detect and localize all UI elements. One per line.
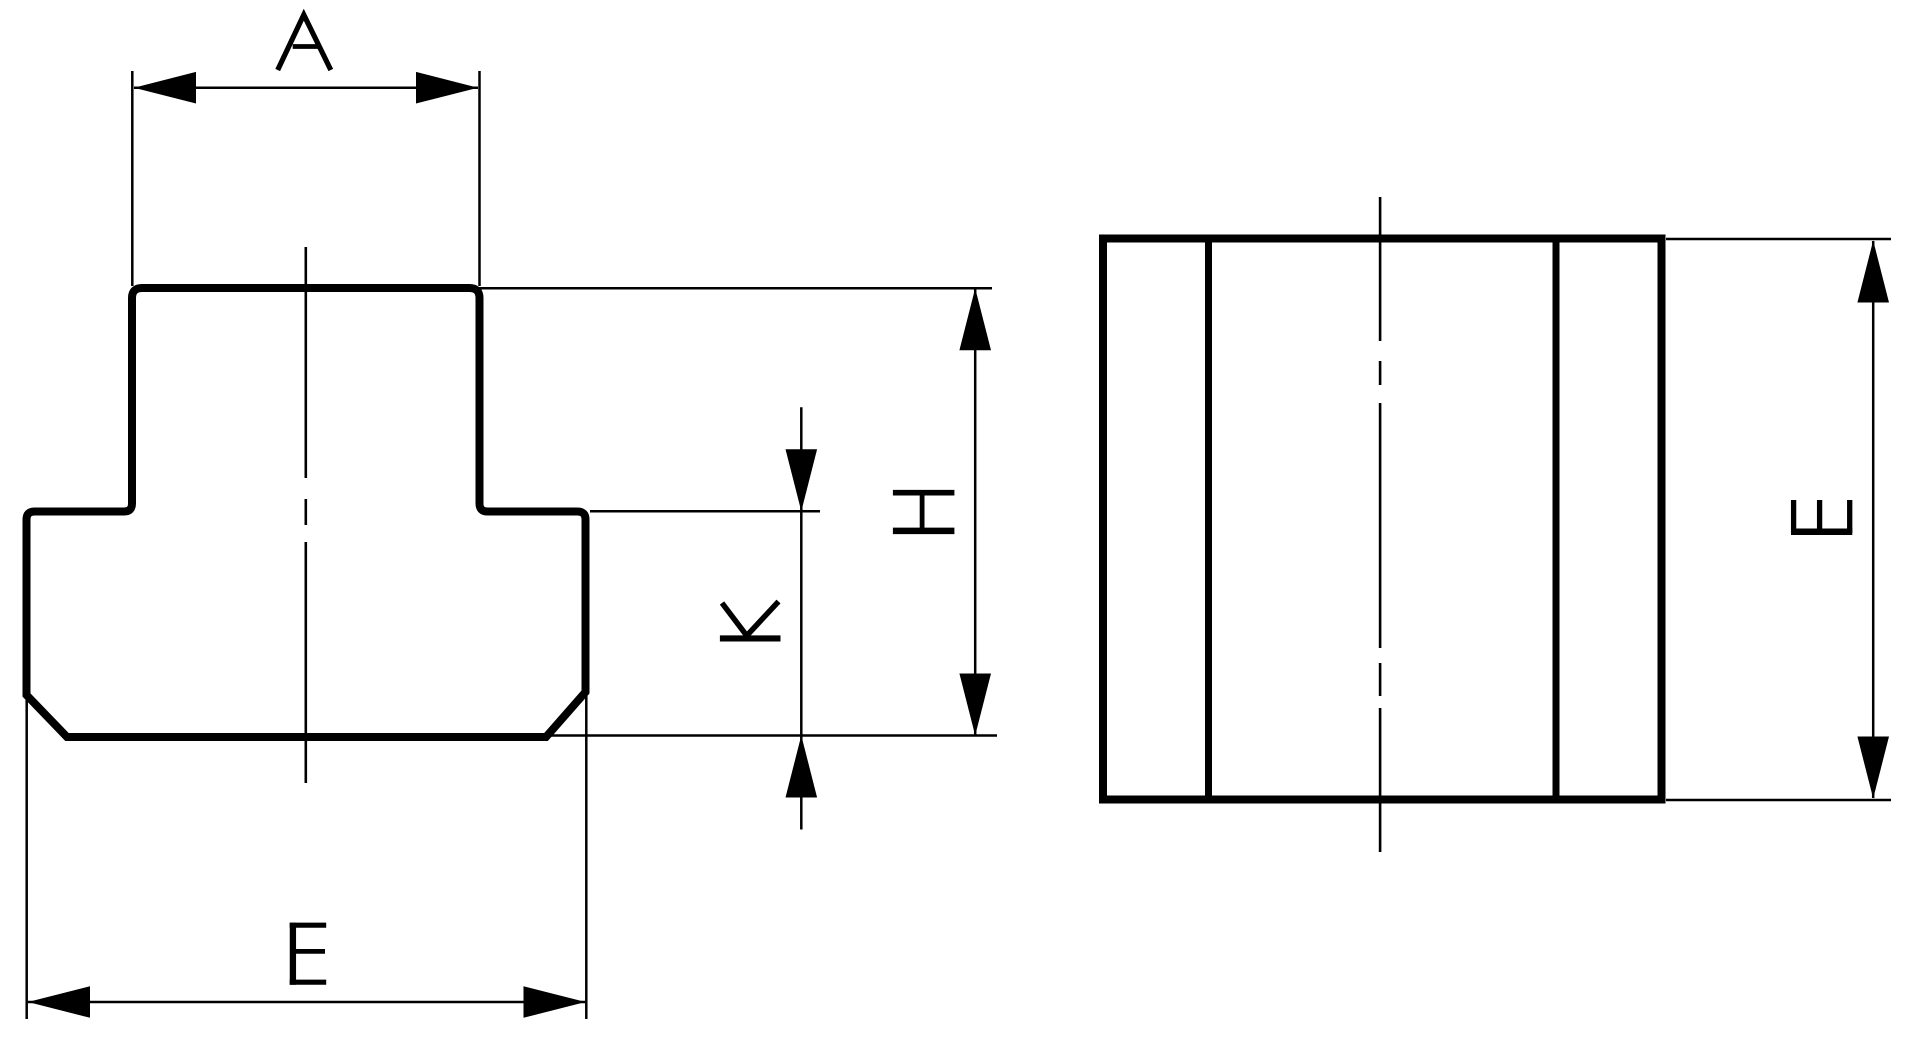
arrowhead E left	[28, 986, 90, 1018]
label A	[278, 15, 331, 70]
T-nut profile outline (front view)	[27, 288, 586, 737]
extension line right	[478, 71, 481, 286]
label K (rotated)	[720, 602, 781, 639]
arrowhead A right	[416, 72, 478, 104]
centerline front view	[304, 247, 307, 783]
dimension line	[134, 86, 478, 89]
dimension A	[132, 71, 479, 286]
side view inner line 2	[1553, 239, 1560, 800]
extension line right	[585, 694, 588, 1019]
side view outer rectangle	[1103, 239, 1662, 800]
extension line top	[1666, 238, 1891, 241]
extension line left	[25, 697, 28, 1019]
dimension line	[1872, 241, 1875, 798]
arrowhead A left	[134, 72, 196, 104]
dimension H	[478, 288, 997, 735]
extension line bottom (from profile bottom)	[550, 734, 997, 737]
side view inner line 1	[1205, 239, 1212, 800]
dimension line	[28, 1001, 586, 1004]
label E (side view, rotated)	[1791, 500, 1852, 533]
centerline side view	[1379, 197, 1382, 852]
arrowhead K lower (pointing up)	[786, 736, 818, 798]
extension line at step level	[590, 510, 820, 513]
dimension line	[974, 288, 977, 735]
extension line top (from profile top)	[478, 287, 992, 290]
dimension K	[590, 407, 820, 829]
arrowhead E side top	[1857, 241, 1889, 303]
arrowhead E right	[524, 986, 586, 1018]
label H (rotated)	[893, 492, 955, 532]
dimension line	[800, 407, 803, 829]
extension line left	[131, 71, 134, 286]
dimension E (side view)	[1666, 239, 1891, 800]
dimension E (front view, bottom)	[27, 694, 587, 1019]
extension line bottom	[1666, 799, 1891, 802]
arrowhead H top	[959, 288, 991, 350]
arrowhead K upper (pointing down)	[786, 449, 818, 511]
label E (front view)	[290, 923, 327, 985]
arrowhead H bottom	[959, 674, 991, 736]
arrowhead E side bottom	[1857, 737, 1889, 799]
